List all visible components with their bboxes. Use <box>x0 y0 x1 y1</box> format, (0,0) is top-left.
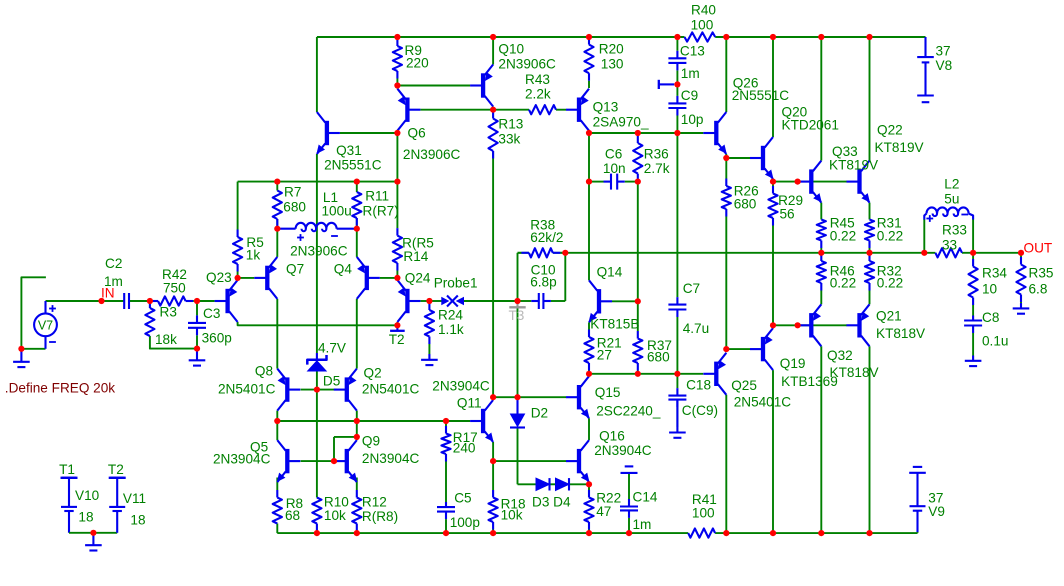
wire R38 left leg <box>517 253 519 301</box>
resistor R8 <box>273 478 282 524</box>
terminal T2 terminal <box>110 477 125 479</box>
wire V8 column stub <box>925 37 927 57</box>
label 2SA970_ <box>593 115 649 130</box>
label 220 <box>406 56 429 71</box>
svg-text:.Define FREQ 20k: .Define FREQ 20k <box>5 381 116 396</box>
zener diode D5 <box>307 353 326 372</box>
wire R9 base node to Q10 base <box>397 85 470 87</box>
wire R17 node to Q11 base <box>446 420 470 422</box>
svg-text:62k/2: 62k/2 <box>530 230 563 245</box>
svg-text:C6: C6 <box>605 147 622 162</box>
svg-text:Q23: Q23 <box>206 270 232 285</box>
label C5 <box>454 491 471 506</box>
wire Q4 emitter column <box>356 229 358 257</box>
svg-text:240: 240 <box>453 441 476 456</box>
label KTD2061 <box>782 118 839 133</box>
label R46 <box>830 264 855 279</box>
label Q7 <box>286 262 304 277</box>
resistor R14 <box>393 182 402 280</box>
node C6 right <box>635 179 641 185</box>
wire L1 left node <box>276 219 278 229</box>
node Q25 collector rail <box>723 530 729 536</box>
svg-text:2N5401C: 2N5401C <box>362 382 420 397</box>
label OUT <box>1024 241 1053 256</box>
transistor Q6 <box>397 89 420 131</box>
svg-text:R36: R36 <box>644 147 669 162</box>
wire C7 bottom to w374 node <box>676 322 678 374</box>
resistor R37 <box>633 301 642 374</box>
label R12 <box>362 495 387 510</box>
label R35 <box>1029 266 1054 281</box>
label 10 <box>982 282 998 297</box>
node Q9 collector <box>354 434 360 440</box>
resistor R46 <box>817 253 826 304</box>
wire feedback column <box>517 301 519 397</box>
label R(R8) <box>362 509 398 524</box>
label R18 <box>501 497 526 512</box>
svg-text:L2: L2 <box>944 177 959 192</box>
label Q4 <box>334 262 353 277</box>
svg-text:10k: 10k <box>501 508 523 523</box>
label R9 <box>405 43 422 58</box>
svg-text:C3: C3 <box>203 306 220 321</box>
node L1 left <box>274 226 280 232</box>
ground R24 ground <box>421 354 438 365</box>
label 37 <box>936 44 951 59</box>
label L2 <box>944 177 959 192</box>
wire T2 V11 bottom lead <box>116 511 118 533</box>
label Q9 <box>362 434 380 449</box>
label 100 <box>692 506 715 521</box>
wire Q14 base to node <box>612 300 638 302</box>
node Q19 emitter bias bottom <box>770 322 776 328</box>
label 37 <box>928 491 943 506</box>
wire Q24 base to R24 node <box>420 300 429 302</box>
label 33k <box>498 132 520 147</box>
transistor Q25 <box>703 353 726 395</box>
svg-text:C18: C18 <box>686 378 711 393</box>
label Q11 <box>457 396 482 411</box>
label Q32 <box>827 348 853 363</box>
wire Q11 emitter row to Q16 base <box>493 460 566 462</box>
resistor R35 <box>1016 253 1025 303</box>
node C3 top <box>194 298 200 304</box>
label 1m <box>633 517 652 532</box>
node C9 bottom <box>674 130 680 136</box>
wire L1 right node <box>356 218 358 229</box>
svg-text:100p: 100p <box>450 515 480 530</box>
transistor Q9 <box>334 440 357 482</box>
label 2N3904C <box>362 451 420 466</box>
svg-text:18k: 18k <box>155 332 177 347</box>
label Q31 <box>336 143 362 158</box>
svg-text:R35: R35 <box>1029 266 1054 281</box>
label 18 <box>130 513 145 528</box>
label 5u <box>944 192 959 207</box>
node R31 R32 <box>866 250 872 256</box>
resistor R33 <box>935 248 962 257</box>
label Q16 <box>599 429 625 444</box>
inductor L2 <box>924 207 973 219</box>
resistor R29 <box>768 182 777 326</box>
label 2N5401C <box>362 382 420 397</box>
transistor Q20 <box>750 137 773 179</box>
label C7 <box>683 281 700 296</box>
wire Q25 emitter node row <box>726 348 750 350</box>
svg-text:T1: T1 <box>59 462 75 477</box>
label V8 <box>936 58 953 73</box>
wire R13 column long <box>492 151 494 397</box>
svg-text:Q14: Q14 <box>597 265 623 280</box>
capacitor C13 <box>668 37 686 84</box>
label C3 <box>203 306 220 321</box>
svg-text:C2: C2 <box>105 256 122 271</box>
node Q22 collector rail <box>866 34 872 40</box>
label 47 <box>596 504 611 519</box>
label 2N3904C <box>432 379 490 394</box>
label 62k/2 <box>530 230 563 245</box>
svg-text:6.8: 6.8 <box>1029 282 1048 297</box>
svg-text:V11: V11 <box>123 491 146 506</box>
label 6.8 <box>1029 282 1048 297</box>
svg-text:R24: R24 <box>438 308 463 323</box>
node C13 C9 junction <box>674 81 680 87</box>
transistor Q11 <box>470 400 493 442</box>
ground C8 ground <box>965 356 982 367</box>
svg-text:750: 750 <box>163 281 186 296</box>
wire Q21 collector to bottom rail <box>869 346 871 533</box>
svg-text:T2: T2 <box>389 332 405 347</box>
wire Q11 emitter stub <box>492 442 494 461</box>
polarity marks L2 <box>926 215 968 222</box>
label Q6 <box>408 126 426 141</box>
wire lower output base row <box>773 324 847 326</box>
transistor Q10 <box>470 65 493 107</box>
label R38 <box>530 218 555 233</box>
svg-text:R20: R20 <box>599 42 624 57</box>
resistor R43 <box>529 105 556 114</box>
resistor R11 <box>352 192 361 229</box>
label R14 <box>403 249 428 264</box>
label R41 <box>692 492 717 507</box>
svg-text:2N3906C: 2N3906C <box>290 244 348 259</box>
node R9 bottom <box>394 82 400 88</box>
resistor R26 <box>722 158 731 346</box>
capacitor C7 <box>668 292 686 322</box>
node R10 bottom <box>314 530 320 536</box>
label 18 <box>78 510 93 525</box>
label 27 <box>597 348 612 363</box>
svg-text:R(R7): R(R7) <box>363 204 399 219</box>
wire R11 top lead <box>356 182 358 192</box>
wire R36 column C6 to Q14 base node <box>637 182 639 302</box>
wire Q24 emitter stub <box>396 322 398 325</box>
node R22 bottom <box>586 530 592 536</box>
wire Q11 collector stub <box>492 397 494 400</box>
wire C2 to R3 node <box>129 300 150 302</box>
label 1m <box>104 274 123 289</box>
resistor R10 <box>312 498 321 534</box>
wire Q13 collector stub <box>588 131 590 133</box>
node R38 right <box>562 250 568 256</box>
svg-text:1m: 1m <box>633 517 652 532</box>
directive .Define FREQ 20k <box>5 381 116 396</box>
resistor R17 <box>441 421 450 502</box>
transistor Q2 <box>334 369 357 411</box>
svg-text:D2: D2 <box>531 406 548 421</box>
wire V7 plus to IN <box>46 300 102 302</box>
transistor Q24 <box>397 280 420 322</box>
wire C10 right leg <box>564 253 566 301</box>
wire R26 bottom to Q25 emitter <box>725 346 727 352</box>
node L2 left R33 <box>921 250 927 256</box>
label Q26 <box>733 76 759 91</box>
wire out rail right <box>962 252 1022 254</box>
svg-text:2N5551C: 2N5551C <box>732 88 790 103</box>
wire Q19 collector to bottom rail <box>772 370 774 533</box>
wire Q8 collector row to R17 node <box>277 420 446 422</box>
label R22 <box>596 491 621 506</box>
svg-text:100u: 100u <box>322 204 352 219</box>
svg-text:360p: 360p <box>202 331 232 346</box>
label Q5 <box>250 440 268 455</box>
wire VAS row to Q15 base <box>518 396 567 398</box>
wire Q9 collector loop side <box>333 437 335 461</box>
wire R24 node to probe <box>429 300 441 302</box>
wire Q8 base stub green <box>301 389 317 391</box>
svg-text:10k: 10k <box>324 508 346 523</box>
node C5 bottom <box>443 530 449 536</box>
svg-text:V9: V9 <box>928 504 945 519</box>
svg-text:C(C9): C(C9) <box>682 403 718 418</box>
label Q22 <box>877 123 903 138</box>
svg-text:10n: 10n <box>603 161 626 176</box>
label R43 <box>525 72 550 87</box>
capacitor C18 <box>668 374 686 427</box>
capacitor C3 <box>188 301 206 349</box>
svg-text:0.1u: 0.1u <box>982 334 1008 349</box>
diode D3 <box>536 478 550 490</box>
wire bottom rail right <box>715 532 917 534</box>
wire Q26 emitter node <box>725 154 727 158</box>
label R45 <box>830 216 855 231</box>
label C10 <box>531 263 556 278</box>
svg-text:2N5551C: 2N5551C <box>324 158 382 173</box>
svg-text:IN: IN <box>101 286 115 301</box>
label R36 <box>644 147 669 162</box>
label 2N3906C <box>403 147 461 162</box>
svg-text:R13: R13 <box>498 117 523 132</box>
label KT815B <box>590 317 639 332</box>
label R11 <box>365 189 389 204</box>
wire Q6 base to R43 node <box>420 109 529 111</box>
label Q21 <box>876 309 902 324</box>
node Q21 collector rail <box>866 530 872 536</box>
svg-text:C8: C8 <box>982 310 999 325</box>
wire w374 row <box>589 373 703 375</box>
capacitor C5 <box>437 502 455 533</box>
svg-text:C5: C5 <box>454 491 471 506</box>
node Q32 collector rail <box>818 530 824 536</box>
label D3 D4 <box>532 495 571 510</box>
wire Q31 collector column <box>316 37 318 112</box>
node VAS R13 bottom <box>490 394 496 400</box>
label C13 <box>680 44 705 59</box>
svg-text:130: 130 <box>601 57 624 72</box>
label 0.22 <box>830 276 856 291</box>
current probe Probe1 <box>442 296 464 307</box>
label 10k <box>501 508 523 523</box>
resistor R41 <box>688 529 715 538</box>
svg-text:4.7V: 4.7V <box>318 341 346 356</box>
transistor Q4 <box>357 257 380 299</box>
svg-text:2.7k: 2.7k <box>644 161 670 176</box>
node Q16 emitter D4 <box>586 481 592 487</box>
battery V9 <box>909 467 926 532</box>
label R26 <box>734 184 759 199</box>
svg-text:R11: R11 <box>365 189 389 204</box>
wire bases node to R10 <box>316 390 318 498</box>
node R20 top <box>586 34 592 40</box>
resistor R20 <box>584 37 593 88</box>
node L1 right <box>354 226 360 232</box>
node bias bottom aux <box>795 322 801 328</box>
label R31 <box>877 216 902 231</box>
node Q26 emitter R26 <box>723 155 729 161</box>
label 360p <box>202 331 232 346</box>
wire Q15 collector stub <box>588 374 590 376</box>
node Q31 base <box>394 130 400 136</box>
node Q33 collector rail <box>818 34 824 40</box>
node R18 bottom <box>490 530 496 536</box>
label L1 <box>323 190 338 205</box>
wire Q20 collector column <box>772 37 774 137</box>
label Q33 <box>832 144 858 159</box>
svg-text:680: 680 <box>283 200 306 215</box>
svg-text:D3 D4: D3 D4 <box>532 495 571 510</box>
wire Q31 emitter column down to D5 <box>316 154 318 353</box>
battery V8 <box>917 37 934 102</box>
svg-text:KT819V: KT819V <box>875 140 924 155</box>
label R17 <box>453 430 478 445</box>
inductor L1 <box>277 223 357 231</box>
node R17 top <box>443 418 449 424</box>
svg-text:37: 37 <box>936 44 951 59</box>
label R29 <box>778 193 803 208</box>
svg-text:OUT: OUT <box>1024 241 1053 256</box>
label 2.2k <box>525 87 551 102</box>
resistor R24 <box>425 301 434 354</box>
node D5 anode bases <box>314 387 320 393</box>
transistor Q32 <box>798 304 821 346</box>
label D5 <box>323 374 340 389</box>
wire Q7 emitter column <box>276 229 278 257</box>
svg-text:4.7u: 4.7u <box>683 321 709 336</box>
svg-text:Q22: Q22 <box>877 123 903 138</box>
svg-text:KT819V: KT819V <box>829 158 878 173</box>
wire Q22 collector column <box>869 37 871 161</box>
resistor R34 <box>969 253 978 316</box>
resistor R21 <box>584 322 593 374</box>
label C9 <box>681 88 698 103</box>
node R11 top <box>354 179 360 185</box>
wire top rail right section <box>715 36 925 38</box>
node C14 bottom <box>626 530 632 536</box>
wire R42 right node to Q23 base <box>197 300 215 302</box>
svg-text:2N3904C: 2N3904C <box>432 379 490 394</box>
svg-text:KT818V: KT818V <box>876 326 925 341</box>
svg-text:V10: V10 <box>75 488 100 503</box>
svg-text:KT818V: KT818V <box>830 365 879 380</box>
label T3 <box>509 308 525 323</box>
svg-text:Probe1: Probe1 <box>434 276 478 291</box>
svg-text:27: 27 <box>597 348 612 363</box>
label R5 <box>246 235 263 250</box>
wire Q33 emitter lead <box>820 203 822 220</box>
svg-text:6.8p: 6.8p <box>530 275 556 290</box>
label R10 <box>324 495 349 510</box>
wire Q5 base row <box>301 460 337 462</box>
svg-text:100: 100 <box>692 506 715 521</box>
node Q19 collector rail <box>770 530 776 536</box>
wire Q6 collector to mirror column <box>396 133 398 182</box>
svg-text:68: 68 <box>285 508 300 523</box>
svg-text:R12: R12 <box>362 495 387 510</box>
wire Q22 emitter lead <box>869 203 871 220</box>
resistor R7 <box>273 191 282 229</box>
label 680 <box>734 197 757 212</box>
node R37 bottom <box>635 371 641 377</box>
wire Q6 emitter stub <box>396 86 398 89</box>
node Q14 base <box>635 298 641 304</box>
wire probe to feedback node <box>464 300 518 302</box>
label V11 <box>123 491 146 506</box>
svg-text:C14: C14 <box>633 490 658 505</box>
svg-text:2N5401C: 2N5401C <box>734 395 792 410</box>
svg-text:KT815B: KT815B <box>590 317 639 332</box>
resistor R42 <box>150 296 197 305</box>
label Q10 <box>498 42 524 57</box>
label 100u <box>322 204 352 219</box>
svg-text:T2: T2 <box>108 462 124 477</box>
svg-text:0.22: 0.22 <box>830 276 856 291</box>
label R42 <box>162 267 187 282</box>
resistor R3 <box>145 301 154 336</box>
svg-text:56: 56 <box>780 207 795 222</box>
label Probe1 <box>434 276 478 291</box>
resistor R5 <box>233 230 242 281</box>
label C8 <box>982 310 999 325</box>
resistor R36 <box>633 133 642 182</box>
svg-text:2N3904C: 2N3904C <box>594 443 652 458</box>
wire V7 minus return <box>21 348 45 350</box>
label 1k <box>246 248 261 263</box>
wire R5 node to Q7 base <box>238 277 255 279</box>
wire Q7 collector to Q8 emitter <box>276 299 278 369</box>
svg-text:Q2: Q2 <box>364 366 382 381</box>
label R(R7) <box>363 204 399 219</box>
transistor Q15 <box>566 376 589 418</box>
node Q24 collector R14 <box>394 275 400 281</box>
node C6 left <box>586 179 592 185</box>
node R9 top <box>394 34 400 40</box>
wire L2 left leg <box>923 219 925 253</box>
wire Q6 collector stub <box>396 131 398 133</box>
resistor R32 <box>865 253 874 304</box>
node R21 bottom <box>586 371 592 377</box>
wire top rail left section <box>317 36 685 38</box>
label Q2 <box>364 366 382 381</box>
